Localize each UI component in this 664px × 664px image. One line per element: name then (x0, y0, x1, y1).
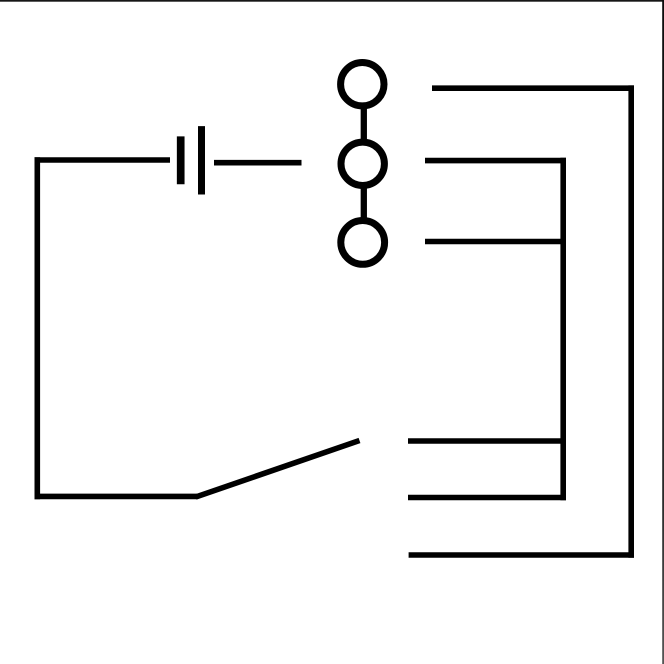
wire: left vertical rail (34, 157, 40, 499)
wire: terminal A row to right rail (432, 85, 634, 91)
wire: lower horizontal from inner rail (408, 495, 566, 501)
wire: inner right vertical rail (560, 158, 566, 501)
wire: switch fixed contact to inner rail (408, 438, 566, 444)
wire: battery negative lead (top-left horizontal) (35, 157, 171, 163)
terminal B (middle circle) (341, 142, 384, 185)
wire: bottom-left horizontal to switch pivot (35, 494, 198, 500)
wire: terminal B row to inner rail (425, 158, 566, 164)
battery B1 negative plate (short) (177, 136, 185, 184)
wire: battery positive lead to selector (214, 160, 302, 166)
wire: outer right vertical rail (628, 85, 634, 557)
terminal C (bottom circle) (341, 221, 385, 265)
wire: bottom horizontal return (409, 552, 634, 558)
wire: terminal C row to inner rail (425, 239, 566, 245)
wire: link terminal B to terminal C (361, 185, 367, 221)
switch S1 blade (open) (196, 441, 360, 498)
wire: link terminal A to terminal B (361, 106, 367, 142)
battery B1 positive plate (long) (198, 126, 205, 194)
terminal A (top circle) (341, 62, 384, 105)
